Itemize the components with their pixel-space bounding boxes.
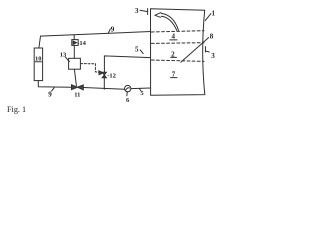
svg-text:3: 3 xyxy=(211,52,215,60)
label 9 (bottom) xyxy=(52,88,55,91)
label 1 xyxy=(205,14,211,21)
control line (dashed, 13 to valve 12) xyxy=(81,64,99,73)
svg-text:1: 1 xyxy=(211,9,215,17)
svg-text:5: 5 xyxy=(135,45,139,53)
curved arrow (flow direction) xyxy=(155,13,161,18)
tank 1 (vessel outline) xyxy=(151,9,205,95)
svg-text:4: 4 xyxy=(171,33,175,41)
pipe (valve 11 to pump) xyxy=(83,88,124,90)
label 8 (interface leader) xyxy=(181,38,209,63)
svg-text:8: 8 xyxy=(210,32,214,40)
level line (dashed, middle) xyxy=(151,42,204,45)
svg-text:5: 5 xyxy=(140,90,144,97)
valve 11 xyxy=(72,85,78,90)
svg-text:-14: -14 xyxy=(77,40,86,47)
wire (box 13 to valve 11) xyxy=(74,69,76,86)
svg-text:Fig. 1: Fig. 1 xyxy=(7,105,26,114)
level line (dashed, lower) xyxy=(151,60,204,61)
level line (dashed, upper) xyxy=(151,31,204,32)
valve 12 xyxy=(102,72,106,75)
svg-text:3: 3 xyxy=(135,7,139,15)
column 10 xyxy=(34,48,42,81)
svg-text:9: 9 xyxy=(111,25,115,33)
controller box 13 xyxy=(69,58,81,69)
pipe 9 (bottom run) xyxy=(38,81,71,88)
pipe 5 (pump to tank) xyxy=(131,87,151,90)
label 3 (right side) xyxy=(204,47,206,52)
svg-text:9: 9 xyxy=(48,91,52,99)
label 5 (lower) xyxy=(139,89,141,91)
pipe 9 (top run, tank to column) xyxy=(39,32,151,48)
check valve 14 xyxy=(73,35,75,40)
svg-text:11: 11 xyxy=(74,92,80,99)
pipe 5 (upper run) xyxy=(104,56,150,72)
label 9 (top) xyxy=(108,29,110,33)
svg-text:-12: -12 xyxy=(107,72,116,79)
pump 6 xyxy=(125,85,131,91)
svg-text:6: 6 xyxy=(126,97,130,104)
